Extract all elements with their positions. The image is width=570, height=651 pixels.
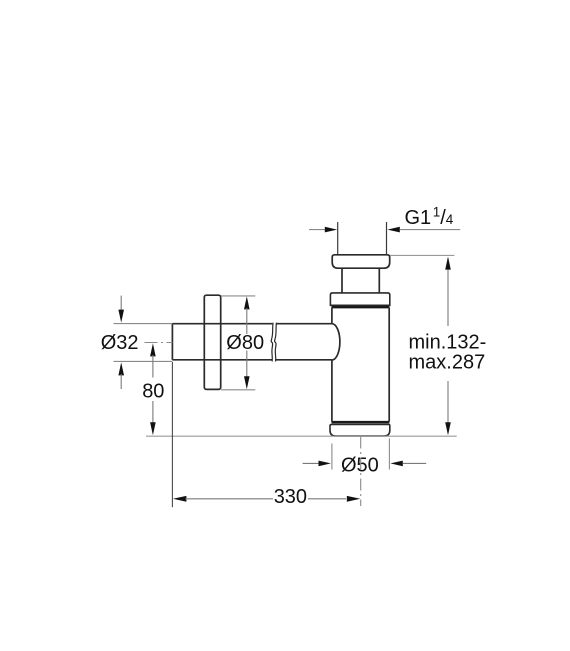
arrowhead: min/max top (points up) [445, 257, 451, 270]
centerline of inlet pipe (dash-dot) [145, 342, 173, 344]
wire: 330 dimension line right segment [308, 498, 346, 500]
wire: extension line from flange top to min/max dimension [390, 254, 454, 256]
body top edge (thick) [332, 306, 390, 309]
wire: diameter 50 left arrow tail [303, 462, 319, 464]
wire: 80 dimension line upper [152, 355, 154, 378]
svg-text:Ø80: Ø80 [226, 332, 264, 354]
arrowhead: diameter 50 left (points right) [319, 461, 331, 467]
arrowhead: diameter 80 bottom (points down) [244, 376, 250, 389]
arrowhead: diameter 80 top (points up) [244, 296, 250, 309]
top flange of bottle trap [332, 255, 390, 268]
body left edge lower segment [331, 360, 333, 422]
wire: diameter 80 extension line bottom [221, 389, 255, 391]
wire: diameter 80 dimension line lower [246, 351, 248, 379]
svg-text:Ø32: Ø32 [101, 332, 139, 354]
centerline below bottle (dash-dot) [360, 437, 362, 507]
svg-text:min.132-: min.132- [409, 332, 487, 354]
wire: diameter 80 dimension line upper [246, 308, 248, 334]
body left edge upper segment [331, 308, 333, 324]
svg-text:330: 330 [274, 486, 307, 508]
wire: diameter 50 right arrow tail [403, 462, 426, 464]
bottom ring of bottle trap [330, 424, 390, 436]
arrowhead: G1 1/4 left (points right) [325, 227, 337, 233]
neck pipe right edge [378, 268, 380, 293]
inlet pipe bottom edge (with break gap) [172, 359, 332, 361]
wire: diameter 50 extension line right [388, 439, 390, 470]
wire: G1 1/4 thread extension line left (vertical) [337, 222, 339, 255]
wire: 330 dimension line left segment [185, 498, 273, 500]
svg-text:max.287: max.287 [409, 352, 486, 374]
wire: diameter 80 extension line top [221, 295, 255, 297]
arrowhead: 330 right (points right) [347, 496, 361, 502]
wire: bottom reference line [146, 435, 457, 437]
wire: G1 1/4 thread extension line right (vertical) [386, 222, 388, 255]
wire: 330 extension line left [171, 362, 173, 507]
arrowhead: 80 dim bottom (points down) [150, 422, 156, 435]
svg-text:Ø50: Ø50 [341, 454, 379, 476]
wire: diameter 32 bottom arrow tail [120, 374, 122, 389]
break line left [271, 323, 273, 362]
inlet pipe top edge (with break gap) [172, 323, 332, 325]
white knockout behind diameter 50 label [340, 452, 380, 473]
arrowhead: diameter 50 right (points left) [390, 461, 402, 467]
neck pipe left edge [341, 268, 343, 293]
break line right [275, 323, 277, 362]
body bottom edge (thick) [332, 421, 390, 424]
arrowhead: 330 left (points left) [173, 496, 187, 502]
body right edge [388, 308, 390, 422]
wire: min/max dimension line lower segment [447, 381, 449, 434]
wire: G1 1/4 dimension line left tail [309, 229, 326, 231]
wire: diameter 32 top arrow tail [120, 296, 122, 311]
wire: min/max dimension line upper segment [447, 258, 449, 326]
arrowhead: diameter 32 bottom (points up) [118, 362, 124, 375]
inlet pipe left end [171, 324, 173, 360]
arrowhead: min/max bottom (points down) [445, 422, 451, 435]
svg-text:80: 80 [142, 380, 164, 402]
wire: diameter 32 extension line top [114, 323, 173, 325]
cap ring of bottle trap [330, 293, 389, 305]
arrowhead: G1 1/4 right (points left) [387, 227, 399, 233]
inlet bulge (rounded pipe end on body) [332, 324, 340, 360]
wall flange (escutcheon) [204, 295, 220, 389]
wire: diameter 32 extension line bottom [114, 360, 173, 362]
arrowhead: diameter 32 top (points down) [118, 310, 124, 323]
wire: G1 1/4 dimension line right tail [400, 229, 460, 231]
wire: 80 dimension line lower [152, 401, 154, 423]
wire: diameter 50 extension line left [331, 444, 333, 470]
arrowhead: 80 dim top (points up) [150, 343, 156, 356]
